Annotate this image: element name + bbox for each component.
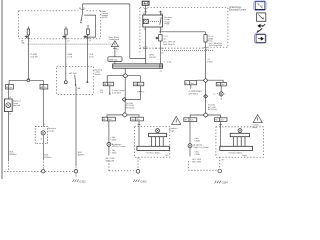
fuse F3 feed arrowhead xyxy=(84,36,87,38)
svg-text:s: s xyxy=(224,94,225,96)
wire F3 into switch xyxy=(87,35,89,82)
wire stub G302 xyxy=(75,167,77,170)
wire C5 down mid chain xyxy=(108,121,110,143)
right backup bulb xyxy=(238,129,242,133)
svg-text:F10: F10 xyxy=(100,92,103,94)
wire S2 right branch xyxy=(128,76,140,83)
splice diamond S4 xyxy=(122,113,127,118)
svg-text:Grn: Grn xyxy=(190,82,193,85)
wire triangle to label box xyxy=(114,47,116,64)
wire C9 down to right lamp xyxy=(219,122,222,147)
svg-text:G302: G302 xyxy=(79,180,86,183)
svg-text:• 2WD: • 2WD xyxy=(194,154,200,156)
splice diamond S7 xyxy=(203,113,208,118)
node pin tick C4 xyxy=(139,91,143,93)
right tail lamp dashed housing xyxy=(216,127,264,157)
svg-text:G304: G304 xyxy=(222,182,229,185)
wire mid chain dashed ground tail xyxy=(109,161,136,171)
wire right lamp box to ground stub xyxy=(219,157,221,169)
inline connector ring right chain xyxy=(188,144,192,148)
wire F5 entry xyxy=(204,32,206,35)
wire mid chain below connector xyxy=(108,146,110,155)
svg-text:• 2WD: • 2WD xyxy=(194,141,200,143)
wire switch output down long run xyxy=(75,87,77,166)
svg-text:PtGrn: PtGrn xyxy=(207,60,213,63)
backup lamp LH bulb xyxy=(6,103,11,108)
svg-text:uPtCLtj Traam: uPtCLtj Traam xyxy=(112,145,126,148)
ground G302 ring xyxy=(74,170,77,173)
wire relay output to right fuse xyxy=(160,31,205,33)
toolbar button 1 body xyxy=(255,2,264,10)
svg-text:A6: A6 xyxy=(6,86,8,89)
wire S5 right branch xyxy=(208,80,223,82)
page reference arrow glyph xyxy=(144,2,148,4)
svg-text:(2W Wtrn): (2W Wtrn) xyxy=(189,92,199,95)
svg-text:C8L: C8L xyxy=(131,119,134,121)
svg-text:2: 2 xyxy=(116,51,117,53)
connector label box C9 xyxy=(215,118,228,122)
svg-text:87: 87 xyxy=(161,29,163,31)
splice diamond S2 xyxy=(123,73,128,78)
wire from F1 down xyxy=(27,35,29,80)
wire RH branch down to lamp 2 xyxy=(42,89,44,127)
svg-text:Interface Bolts -: Interface Bolts - xyxy=(146,151,161,154)
wire right chain below ring xyxy=(189,148,191,157)
arrowhead page ref 41D xyxy=(109,93,111,95)
svg-text:C2: C2 xyxy=(160,71,162,73)
page reference tag box xyxy=(142,1,149,5)
backup lamp 2 bulb xyxy=(41,131,45,135)
svg-text:B2Wtrn: B2Wtrn xyxy=(10,153,18,156)
node splice ring on ground bus xyxy=(42,170,45,173)
wire dashed stub below ring xyxy=(220,96,222,100)
node ticks at fuse block exits xyxy=(27,38,90,40)
svg-text:Grn: Grn xyxy=(44,87,47,89)
connector C2 label box right xyxy=(40,85,48,90)
svg-text:98: 98 xyxy=(222,159,224,161)
wire lamp2 to ground xyxy=(42,144,44,161)
svg-text:C2: C2 xyxy=(142,47,144,49)
ground G304 ring xyxy=(218,169,222,173)
wire relay pin87 down xyxy=(159,27,161,34)
fuse F4 relay output xyxy=(159,35,162,41)
relay K1 dotted link xyxy=(148,20,159,22)
svg-text:W/O U98: W/O U98 xyxy=(192,161,201,163)
mid socket pins xyxy=(152,137,164,147)
wire bus to splice run xyxy=(124,68,126,73)
wire ignition feed into BCM xyxy=(82,4,84,14)
wire F4 to bus end xyxy=(159,41,161,64)
svg-text:C7: C7 xyxy=(89,41,91,43)
wire S2 left branch xyxy=(107,76,123,83)
connector label box C4 xyxy=(134,82,144,86)
splice diamond S3 xyxy=(122,98,126,102)
svg-text:• 2WD: • 2WD xyxy=(110,140,116,142)
svg-text:B2Wtrn: B2Wtrn xyxy=(44,156,52,159)
svg-text:Page: Page xyxy=(169,130,175,132)
svg-text:SMP104: SMP104 xyxy=(109,59,118,61)
dotted boundary segment right of relay fuse xyxy=(162,50,213,52)
right socket pins xyxy=(233,137,245,147)
switch terminal left xyxy=(64,81,67,84)
svg-text:LT A: LT A xyxy=(89,53,94,56)
wire LH lamp to ground run xyxy=(7,112,9,162)
fuse block U1 (BCM) dashed outline xyxy=(19,11,101,39)
connector label box C3 xyxy=(103,82,113,86)
fuse F2 feed arrowhead xyxy=(62,36,66,38)
fuse F1 feed arrowhead xyxy=(25,36,29,38)
svg-text:(BCM): (BCM) xyxy=(102,17,108,19)
backup lamp 2 dashed housing xyxy=(35,127,47,144)
svg-text:1 0.8 DK: 1 0.8 DK xyxy=(30,57,39,59)
svg-text:15: 15 xyxy=(83,8,85,10)
node pin 30/15 tick xyxy=(81,8,85,10)
ground symbol G303 hatch xyxy=(133,179,139,182)
toolbar button 4 arrow icon xyxy=(258,37,264,40)
svg-text:4: 4 xyxy=(143,92,144,94)
svg-text:7: 7 xyxy=(87,64,88,66)
node pin tick X5 xyxy=(113,48,117,50)
toolbar glyph 3 pencil xyxy=(257,24,265,32)
wire feed down from B+ line xyxy=(129,4,131,59)
warning triangle fuse block xyxy=(111,41,118,47)
relay K1 box xyxy=(143,15,163,27)
svg-text:C5: C5 xyxy=(67,41,69,43)
svg-text:6: 6 xyxy=(66,64,67,66)
fuse F2 xyxy=(65,29,67,35)
wire S4 left branch xyxy=(107,115,122,117)
svg-text:YEL: YEL xyxy=(136,119,140,121)
wire relay pin85 to bus xyxy=(145,27,147,64)
bus end connector cell xyxy=(159,64,161,68)
svg-text:Rue left: Rue left xyxy=(13,104,21,107)
toolbar button 4 body xyxy=(256,35,265,43)
ground G303 ring xyxy=(136,170,140,174)
mid lamp connector bar xyxy=(137,146,169,150)
svg-text:(→8 C): (→8 C) xyxy=(164,61,171,63)
wire F2 into switch xyxy=(65,35,67,81)
right lamp connector bar xyxy=(220,146,253,150)
wire relay pin30 feed xyxy=(145,5,147,15)
splice pack bus bar upper xyxy=(113,64,163,68)
svg-text:Electrical Center: Electrical Center xyxy=(229,9,247,12)
ground symbol G304 hatch xyxy=(215,181,221,184)
backup lamp LH housing xyxy=(5,99,13,112)
svg-text:4 p5 Wtrn: 4 p5 Wtrn xyxy=(112,91,122,94)
svg-text:YEL: YEL xyxy=(138,84,142,86)
wire C7 down xyxy=(220,86,222,92)
wire F3 to loop xyxy=(87,25,89,36)
wire internal loop to fuse feed xyxy=(84,15,95,37)
svg-text:• 2WD: • 2WD xyxy=(110,153,116,155)
wire lamp2 dashed tail xyxy=(42,162,44,170)
fuse F4 arrowhead xyxy=(155,37,158,39)
toolbar glyph 3 arrow xyxy=(258,25,263,27)
svg-text:30: 30 xyxy=(143,13,145,15)
svg-text:C8L: C8L xyxy=(134,84,137,86)
svg-text:8: 8 xyxy=(146,47,147,49)
toolbar button 1 focus ring xyxy=(254,1,266,10)
switch arrowhead xyxy=(81,19,83,21)
relay K1 contact blade xyxy=(160,17,161,25)
backup switch dashed box xyxy=(57,66,94,94)
toolbar button 2 diagonal icon xyxy=(258,15,263,20)
wire C3 stub with arrow xyxy=(109,86,111,94)
svg-text:A/T 304: A/T 304 xyxy=(69,72,77,75)
mid tail lamp dashed housing xyxy=(135,127,170,158)
wire to LH backup lamp xyxy=(7,89,9,99)
wire S7 left branch xyxy=(190,115,203,118)
inline connector ring mid xyxy=(107,142,111,146)
switch blade backup xyxy=(75,75,76,88)
switch terminal right xyxy=(86,81,88,83)
connector label box C8 xyxy=(184,118,197,122)
toolbar button 4 focus ring xyxy=(255,34,267,43)
connector label box C7 xyxy=(216,82,226,86)
fuse block label connector box xyxy=(108,57,122,62)
node pin tick C2-8 xyxy=(144,47,148,49)
node pin tick 86 xyxy=(159,11,163,13)
wire C8 down right chain xyxy=(189,122,191,144)
node switch contact dot xyxy=(80,22,81,23)
mid bulb socket xyxy=(149,133,167,136)
svg-text:Right: Right xyxy=(242,154,247,157)
wire splice branch horizontal xyxy=(9,79,43,81)
node pin tick E7 xyxy=(204,46,208,48)
svg-text:14: 14 xyxy=(155,48,157,50)
fuse F5 right feed xyxy=(204,35,207,42)
svg-text:(w/3 DkgnTk: (w/3 DkgnTk xyxy=(163,44,176,46)
svg-text:B2Wtrn: B2Wtrn xyxy=(78,154,86,157)
wire left branch down xyxy=(8,80,10,84)
connector C1 label box left xyxy=(6,85,14,90)
svg-text:(w/3 DtrgnTofk: (w/3 DtrgnTofk xyxy=(209,44,223,47)
svg-text:W/O U98: W/O U98 xyxy=(106,161,115,163)
svg-text:Grn: Grn xyxy=(9,87,12,89)
svg-text:Interface Bolts -: Interface Bolts - xyxy=(229,151,244,154)
fuse F1 xyxy=(27,29,29,35)
svg-text:PtgR CLtj Traam: PtgR CLtj Traam xyxy=(193,146,209,149)
svg-text:Lamps: Lamps xyxy=(48,131,54,133)
connector label box C6 xyxy=(131,117,144,121)
inline connector ring right top xyxy=(219,92,223,96)
wire mid lamp box to ground stub xyxy=(137,158,139,170)
warning triangle mid xyxy=(172,116,181,124)
wire F5 down B+ run xyxy=(204,42,206,78)
right bulb socket xyxy=(230,133,249,136)
svg-text:GRA: GRA xyxy=(67,53,72,56)
wire S4 right branch xyxy=(128,115,140,117)
node junction dot pin87 xyxy=(160,31,162,33)
wire S2 to S3 vertical xyxy=(124,78,126,113)
wire loop arrowhead xyxy=(84,36,86,38)
splice diamond S6 xyxy=(204,94,208,98)
inline connector label box right xyxy=(185,81,197,85)
node pin tick 14-D xyxy=(158,47,162,49)
relay pin 86 stub xyxy=(159,11,161,15)
fuse block inner dotted boundary xyxy=(28,43,113,45)
splice pack bus bar lower xyxy=(113,65,163,67)
svg-text:30: 30 xyxy=(79,8,81,10)
toolbar button 2 body xyxy=(257,13,266,21)
svg-text:86: 86 xyxy=(161,13,163,15)
wire S5 left branch to inline box xyxy=(191,80,204,89)
svg-text:E7: E7 xyxy=(206,49,208,51)
wire C6 down to mid lamp xyxy=(138,121,141,146)
svg-text:8: 8 xyxy=(140,159,141,161)
svg-text:PU (Crw): PU (Crw) xyxy=(126,107,135,110)
switch blade arrowhead xyxy=(75,84,77,86)
wire C4 down to splice S3 xyxy=(126,86,140,100)
warning triangle right xyxy=(253,115,262,123)
wire feed elbow to bus xyxy=(130,57,146,59)
relay K1 coil xyxy=(143,19,148,23)
fuse F3 xyxy=(87,29,90,34)
underhood electrical center dashed box xyxy=(140,8,228,53)
mid backup bulb xyxy=(156,129,160,133)
wire stub above F1 xyxy=(27,26,29,29)
switch S ignition blade xyxy=(81,13,83,21)
wire right branch down xyxy=(42,80,44,84)
wire lamp 2 internal xyxy=(42,135,44,144)
wire B+ top feed xyxy=(83,3,130,5)
svg-text:Underhood: Underhood xyxy=(109,38,120,41)
wire LH dashed ground tail xyxy=(7,163,9,172)
wire ground bus G302 dashed xyxy=(4,170,74,172)
node splice S1 on backup feed xyxy=(27,79,30,82)
svg-text:PWR: PWR xyxy=(164,24,169,26)
svg-text:Switch: Switch xyxy=(95,73,102,76)
svg-text:Right: Right xyxy=(252,126,257,129)
wire stub above F2 xyxy=(65,26,67,29)
node pin tick X4 xyxy=(144,9,148,12)
wire S5 to S6 xyxy=(205,82,207,112)
ground symbol G302 hatch xyxy=(72,179,78,182)
splice diamond S5 right xyxy=(203,78,208,82)
connector label box C5 xyxy=(102,117,115,121)
svg-text:b: b xyxy=(45,124,46,126)
svg-text:FROM: FROM xyxy=(149,57,155,59)
svg-text:AC (Crw): AC (Crw) xyxy=(208,108,217,111)
svg-text:G303: G303 xyxy=(140,180,147,183)
wire S7 right branch xyxy=(208,115,220,118)
svg-text:85: 85 xyxy=(144,29,146,31)
toolbar button 1 icon scribble xyxy=(257,3,262,8)
wire right chain dashed ground tail xyxy=(188,161,218,170)
svg-text:A6: A6 xyxy=(41,86,43,89)
